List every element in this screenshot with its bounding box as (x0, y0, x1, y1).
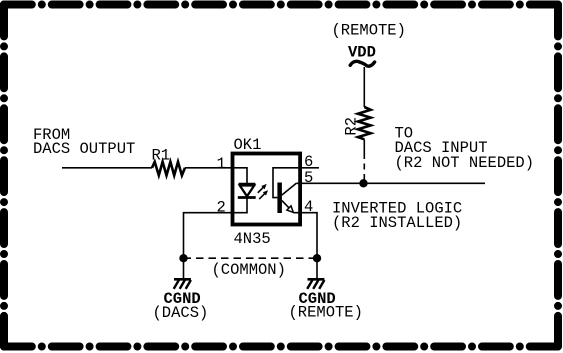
svg-text:5: 5 (304, 169, 313, 187)
wire input net to R1 (62, 167, 152, 169)
svg-text:OK1: OK1 (234, 136, 262, 154)
wire pin 2 to dacs ground (184, 213, 233, 279)
svg-text:(REMOTE): (REMOTE) (332, 22, 406, 40)
op-to coupler OK1 box (233, 154, 301, 225)
svg-text:1: 1 (217, 155, 226, 173)
svg-text:(DACS): (DACS) (153, 304, 209, 322)
svg-text:(REMOTE): (REMOTE) (289, 304, 363, 322)
node junction left common (179, 254, 187, 262)
power symbol VDD (348, 43, 376, 66)
ground symbol CGND remote (307, 279, 324, 289)
svg-text:2: 2 (217, 199, 226, 217)
ground symbol CGND dacs (174, 279, 191, 289)
wire dashed common bond (184, 257, 318, 259)
wire internal base lead to pin 6 and stub (273, 168, 319, 198)
resistor R1 (152, 162, 185, 176)
label TO DACS INPUT (395, 124, 535, 172)
svg-text:(COMMON): (COMMON) (212, 261, 286, 279)
wire pin 4 to remote ground (294, 213, 317, 279)
node junction right common (313, 254, 321, 262)
node junction on output net (359, 179, 367, 187)
wire internal LED anode rail (233, 168, 248, 184)
wire pin 5 output net (296, 182, 485, 184)
svg-text:R1: R1 (152, 147, 171, 165)
wire internal LED cathode rail (233, 198, 248, 213)
label FROM DACS OUTPUT (33, 126, 135, 158)
svg-text:(R2 NOT NEEDED): (R2 NOT NEEDED) (395, 154, 535, 172)
wire R2 bottom solid (363, 139, 365, 153)
light arrow 1 (258, 184, 267, 193)
LED anode bar (239, 183, 256, 186)
svg-text:(R2 INSTALLED): (R2 INSTALLED) (332, 214, 462, 232)
light arrow 2 (259, 190, 268, 199)
phototransistor base bar (277, 183, 282, 214)
LED cathode bar (238, 196, 256, 199)
label INVERTED LOGIC (332, 199, 462, 232)
wire R1 to opto pin 1 (185, 167, 233, 169)
wire VDD to R2 (363, 67, 365, 107)
wire R2 dashed optional to node (363, 153, 365, 181)
svg-text:DACS OUTPUT: DACS OUTPUT (33, 140, 135, 158)
phototransistor collector (282, 183, 296, 195)
svg-text:VDD: VDD (348, 43, 376, 61)
svg-text:R2: R2 (343, 117, 361, 136)
LED triangle (240, 186, 254, 197)
emitter arrowhead (287, 206, 293, 213)
resistor R2 (358, 107, 371, 139)
phototransistor emitter (282, 201, 294, 213)
svg-text:4N35: 4N35 (234, 230, 271, 248)
